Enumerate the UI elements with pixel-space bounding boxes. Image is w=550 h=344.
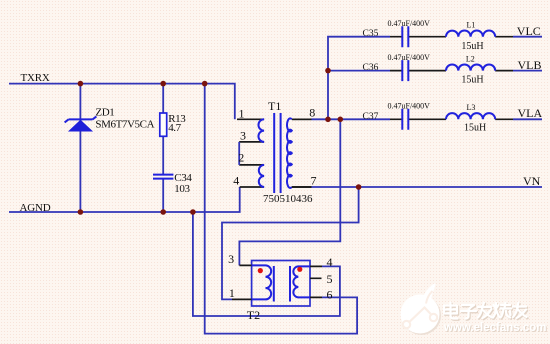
svg-text:15uH: 15uH bbox=[464, 122, 486, 133]
svg-text:0.47uF/400V: 0.47uF/400V bbox=[388, 53, 431, 62]
svg-text:L1: L1 bbox=[467, 20, 476, 29]
svg-text:VLA: VLA bbox=[518, 106, 543, 120]
svg-text:4: 4 bbox=[233, 174, 239, 188]
svg-text:AGND: AGND bbox=[20, 202, 51, 214]
svg-text:TXRX: TXRX bbox=[21, 72, 50, 84]
svg-text:0.47uF/400V: 0.47uF/400V bbox=[388, 101, 431, 110]
svg-text:15uH: 15uH bbox=[461, 41, 483, 52]
svg-text:VN: VN bbox=[523, 174, 541, 188]
svg-text:4: 4 bbox=[327, 255, 333, 269]
svg-text:8: 8 bbox=[309, 106, 315, 120]
svg-text:T1: T1 bbox=[268, 99, 281, 113]
svg-text:750510436: 750510436 bbox=[263, 193, 313, 205]
svg-text:103: 103 bbox=[174, 183, 190, 195]
svg-text:3: 3 bbox=[240, 129, 246, 143]
svg-text:T2: T2 bbox=[247, 308, 260, 322]
svg-text:SM6T7V5CA: SM6T7V5CA bbox=[95, 119, 154, 131]
svg-text:L3: L3 bbox=[467, 103, 476, 112]
svg-text:C37: C37 bbox=[363, 112, 379, 122]
svg-text:L2: L2 bbox=[466, 54, 475, 63]
svg-text:15uH: 15uH bbox=[461, 75, 483, 86]
svg-text:ZD1: ZD1 bbox=[95, 107, 114, 119]
svg-text:3: 3 bbox=[228, 252, 234, 266]
svg-text:C36: C36 bbox=[363, 63, 379, 73]
svg-text:VLC: VLC bbox=[517, 24, 541, 38]
svg-text:C35: C35 bbox=[363, 29, 379, 39]
svg-text:4.7: 4.7 bbox=[168, 122, 181, 134]
svg-text:1: 1 bbox=[229, 286, 235, 300]
svg-text:5: 5 bbox=[327, 272, 333, 286]
svg-text:2: 2 bbox=[238, 151, 244, 165]
svg-text:www.elecfans.com: www.elecfans.com bbox=[443, 322, 546, 334]
svg-text:7: 7 bbox=[311, 174, 317, 188]
svg-text:6: 6 bbox=[327, 288, 333, 302]
svg-text:0.47uF/400V: 0.47uF/400V bbox=[388, 19, 431, 28]
svg-text:VLB: VLB bbox=[518, 58, 542, 72]
svg-text:C34: C34 bbox=[174, 172, 192, 184]
svg-text:1: 1 bbox=[239, 107, 245, 121]
